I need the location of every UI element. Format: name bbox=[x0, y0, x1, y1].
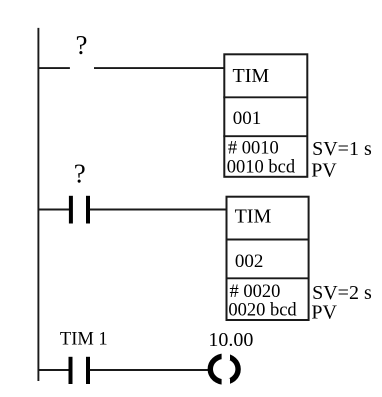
svg-text:SV=1 s: SV=1 s bbox=[312, 138, 372, 160]
svg-text:PV: PV bbox=[311, 160, 337, 182]
timer U1 TIM 001 box bbox=[223, 54, 307, 177]
svg-text:TIM: TIM bbox=[233, 65, 270, 87]
svg-text:002: 002 bbox=[235, 251, 264, 272]
left power rail bbox=[37, 28, 39, 381]
contact TIM 1 (rung 3, normally open) bbox=[69, 357, 91, 384]
svg-text:?: ? bbox=[74, 159, 86, 189]
svg-text:001: 001 bbox=[233, 108, 261, 129]
wire rung 3 right segment bbox=[90, 369, 209, 371]
svg-text:?: ? bbox=[76, 30, 88, 60]
wire rung 1 right segment bbox=[94, 67, 225, 69]
svg-text:0010 bcd: 0010 bcd bbox=[227, 157, 296, 177]
wire rung 1 left segment bbox=[38, 67, 70, 69]
wire rung 3 left segment bbox=[38, 369, 69, 371]
svg-text:TIM 1: TIM 1 bbox=[60, 330, 108, 350]
svg-text:# 0010: # 0010 bbox=[228, 139, 279, 159]
svg-text:10.00: 10.00 bbox=[208, 329, 253, 351]
wire rung 2 right segment bbox=[90, 209, 228, 211]
svg-text:# 0020: # 0020 bbox=[230, 282, 281, 302]
coil 10.00 bbox=[210, 348, 238, 390]
svg-text:TIM: TIM bbox=[235, 205, 272, 227]
wire rung 2 left segment bbox=[38, 209, 70, 211]
contact (rung 2, normally open) bbox=[69, 196, 90, 224]
svg-text:0020 bcd: 0020 bcd bbox=[228, 300, 297, 320]
svg-text:PV: PV bbox=[311, 301, 337, 323]
timer U2 TIM 002 box bbox=[226, 197, 309, 320]
